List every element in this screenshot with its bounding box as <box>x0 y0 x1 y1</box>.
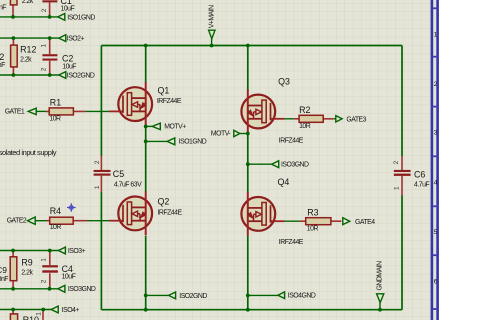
terminal MOTV+ <box>152 123 160 129</box>
resistor R10 (cut at bottom) <box>12 310 14 314</box>
resistor R2 leads <box>294 118 334 120</box>
wire ISO3GND rail <box>0 288 58 290</box>
label R2 <box>299 105 311 130</box>
label Q2 <box>158 197 183 217</box>
junction ISO3+ rail R9 <box>11 249 15 253</box>
wire R4 to Q2 gate <box>87 220 110 222</box>
svg-text:MOTV-: MOTV- <box>211 130 231 137</box>
svg-text:GATE2: GATE2 <box>7 217 27 224</box>
resistor R4 leads <box>47 220 88 222</box>
capacitor C5 leads <box>100 156 102 193</box>
label C2 <box>62 54 76 71</box>
svg-text:1: 1 <box>94 185 101 189</box>
wire Q3 source to Q4 drain <box>247 134 249 193</box>
svg-text:3: 3 <box>434 130 438 137</box>
svg-text:MOTV+: MOTV+ <box>164 123 186 130</box>
wire ISO4+ rail <box>0 309 51 311</box>
svg-text:ISO3GND: ISO3GND <box>68 286 96 293</box>
resistor above ISO1GND (cut at top) <box>12 5 14 17</box>
transistor Q4 <box>241 192 284 236</box>
svg-text:R1: R1 <box>50 97 61 107</box>
svg-text:IRFZ44E: IRFZ44E <box>279 138 304 145</box>
wire Q3 gate to R2 <box>284 118 294 120</box>
terminal ISO1GND left rail <box>58 14 65 21</box>
terminal ISO2GND left rail <box>59 72 66 79</box>
label C4 <box>62 264 76 281</box>
wire Q4 gate to R3 <box>284 220 300 222</box>
resistor R3 <box>306 218 331 225</box>
wire V+MAIN top bus <box>101 45 402 47</box>
sheet outer white margin <box>439 0 477 320</box>
svg-text:6: 6 <box>434 278 438 285</box>
junction ISO3GND rail R9 <box>11 287 15 291</box>
wire ISO2GND stub <box>146 294 169 296</box>
svg-text:2.2k: 2.2k <box>22 0 34 5</box>
svg-text:2.2k: 2.2k <box>21 269 33 276</box>
terminal ISO3GND mid <box>272 161 279 168</box>
svg-text:10R: 10R <box>299 123 311 130</box>
label R12 <box>20 45 36 64</box>
capacitor C6 leads <box>401 156 403 196</box>
svg-text:R12: R12 <box>20 45 36 55</box>
junction ISO2GND rail C2 <box>48 73 52 77</box>
wire Q1 source to Q2 drain <box>145 126 147 192</box>
junction top bus V+MAIN <box>210 44 214 48</box>
svg-text:nF: nF <box>0 62 5 69</box>
svg-text:ISO2GND: ISO2GND <box>179 293 207 300</box>
svg-text:1: 1 <box>41 44 48 48</box>
wire C5 column lower <box>100 192 102 310</box>
label Q1 <box>157 85 182 105</box>
wire GATE2 to R4 <box>35 220 46 222</box>
junction ISO3+ rail C4 <box>48 249 52 253</box>
terminal ISO1GND mid <box>167 138 175 145</box>
svg-text:ISO2GND: ISO2GND <box>67 72 95 79</box>
svg-text:10uF: 10uF <box>62 274 76 281</box>
svg-text:1: 1 <box>35 312 42 316</box>
capacitor C4 plates <box>42 265 58 272</box>
wire R2 to GATE3 <box>333 118 336 120</box>
svg-text:2.2k: 2.2k <box>20 57 32 64</box>
wire Q1 drain from bus <box>145 46 147 84</box>
terminal ISO3+ <box>58 247 65 254</box>
resistor R12 leads <box>12 38 14 75</box>
label R3 <box>307 208 319 233</box>
svg-text:2: 2 <box>94 160 101 164</box>
capacitor C1 bottom plate <box>42 0 57 2</box>
capacitor C4 leads <box>49 251 51 289</box>
wire ISO3+ rail <box>0 250 58 252</box>
capacitor C5 plates <box>94 170 111 176</box>
junction top bus Q1 drain <box>144 44 148 48</box>
svg-text:1: 1 <box>394 186 401 190</box>
svg-text:C9: C9 <box>0 265 7 275</box>
transistor Q1 <box>109 82 152 126</box>
svg-text:IRFZ44E: IRFZ44E <box>157 98 182 105</box>
junction ISO4GND node <box>246 294 250 298</box>
svg-text:Q3: Q3 <box>278 76 290 86</box>
border outer line <box>436 0 439 320</box>
label C6 <box>414 169 429 188</box>
wire MOTV+ stub <box>146 125 153 127</box>
origin marker blue <box>67 203 76 212</box>
terminal GATE2 <box>28 217 36 224</box>
svg-text:ISO2+: ISO2+ <box>67 36 85 43</box>
junction ISO2+ rail R12 <box>12 36 16 40</box>
svg-text:4.7uF 63V: 4.7uF 63V <box>114 182 142 189</box>
junction MOTV+ node <box>144 125 148 129</box>
resistor R1 <box>49 108 73 115</box>
junction bottom bus Q4 source <box>246 308 250 312</box>
svg-text:ISO1GND: ISO1GND <box>67 14 95 21</box>
svg-text:4: 4 <box>434 179 438 186</box>
terminal V+MAIN <box>209 30 215 39</box>
label C1 cut <box>61 0 75 12</box>
wire ISO1GND rail <box>0 16 58 18</box>
svg-text:4.7uF: 4.7uF <box>414 181 429 188</box>
wire R1 to Q1 gate <box>85 110 109 112</box>
svg-text:ISO3+: ISO3+ <box>68 248 86 255</box>
svg-text:GATE3: GATE3 <box>346 116 366 123</box>
terminal GATE1 <box>28 108 36 114</box>
wire ISO2+ rail <box>0 37 59 39</box>
resistor R1 leads <box>46 110 85 112</box>
wire Q3 drain from bus <box>247 46 249 91</box>
svg-text:ISO1GND: ISO1GND <box>179 139 207 146</box>
svg-text:ISO3GND: ISO3GND <box>281 161 309 168</box>
border inner line <box>431 0 434 320</box>
resistor R3 leads <box>300 220 342 222</box>
svg-text:1: 1 <box>40 258 47 262</box>
svg-text:R9: R9 <box>21 258 32 268</box>
svg-text:Q1: Q1 <box>158 85 170 95</box>
svg-text:C5: C5 <box>113 169 124 179</box>
resistor R4 <box>50 217 73 224</box>
svg-text:C6: C6 <box>414 169 425 179</box>
svg-text:2: 2 <box>0 52 4 62</box>
svg-text:IRFZ44E: IRFZ44E <box>279 239 304 246</box>
transistor Q3 <box>241 90 284 134</box>
svg-text:1: 1 <box>434 31 438 38</box>
svg-text:10uF: 10uF <box>61 5 75 12</box>
svg-text:Q2: Q2 <box>158 197 170 207</box>
svg-text:R4: R4 <box>50 206 61 216</box>
svg-text:isolated input supply: isolated input supply <box>0 148 57 157</box>
junction ISO2+ rail C2 <box>48 36 52 40</box>
junction bottom bus Q2 source <box>144 308 148 312</box>
junction ISO1GND rail R11 <box>11 15 15 19</box>
label C5 <box>113 169 142 188</box>
svg-text:00nF: 00nF <box>0 276 8 283</box>
junction ISO3GND rail C4 <box>48 287 52 291</box>
terminal ISO3GND left rail <box>58 285 65 292</box>
svg-text:ISO4+: ISO4+ <box>62 307 80 314</box>
capacitor C6 plates <box>394 170 411 176</box>
capacitor C1 lead (cut at top) <box>49 2 51 17</box>
label Q3 <box>278 76 304 144</box>
svg-text:2: 2 <box>434 81 438 88</box>
label R9 <box>21 258 33 277</box>
svg-text:GATE1: GATE1 <box>5 109 25 116</box>
svg-text:IRFZ44E: IRFZ44E <box>158 209 183 216</box>
wire C6 column upper <box>401 46 403 157</box>
terminal GATE4 <box>343 218 350 225</box>
svg-text:10R: 10R <box>50 224 62 231</box>
label R1 <box>49 97 61 122</box>
wire GNDMAIN terminal stub <box>379 303 381 310</box>
resistor R9 leads <box>12 251 14 289</box>
svg-text:ISO4GND: ISO4GND <box>288 293 316 300</box>
junction MOTV- node <box>246 132 250 136</box>
wire MOTV- stub <box>240 133 248 135</box>
resistor R2 <box>299 115 323 122</box>
capacitor C2 leads <box>49 38 51 75</box>
label R10 cut <box>23 315 39 320</box>
wire C5 column upper <box>100 46 102 157</box>
svg-text:2: 2 <box>393 160 400 164</box>
capacitor C10 lead (cut at bottom) <box>42 311 44 320</box>
wire ISO4GND stub <box>248 294 279 296</box>
svg-text:2: 2 <box>41 8 48 12</box>
junction ISO1GND rail C1 <box>48 15 52 19</box>
junction ISO3GND node <box>246 162 250 166</box>
terminal MOTV- <box>234 130 240 136</box>
wire V+MAIN terminal stub <box>211 39 213 46</box>
wire ISO2GND rail <box>0 74 59 76</box>
resistor R12 <box>11 45 18 67</box>
wire GATE1 to R1 <box>34 110 46 112</box>
svg-text:C4: C4 <box>62 264 73 274</box>
junction ISO4+ rail R10 <box>11 308 15 312</box>
junction ISO2GND rail R12 <box>12 73 16 77</box>
junction ISO4+ rail C10 <box>41 308 45 312</box>
terminal ISO2+ <box>59 35 66 42</box>
terminal GATE3 <box>336 116 342 122</box>
wire GNDMAIN bottom bus <box>101 309 402 311</box>
svg-text:GNDMAIN: GNDMAIN <box>376 261 383 291</box>
terminal GNDMAIN <box>377 294 384 303</box>
svg-text:2: 2 <box>40 279 47 283</box>
wire C6 column lower <box>401 196 403 310</box>
svg-text:C2: C2 <box>62 54 73 64</box>
junction top bus Q3 drain <box>246 44 250 48</box>
svg-text:10uF: 10uF <box>62 64 76 71</box>
svg-text:V+MAIN: V+MAIN <box>209 5 216 28</box>
border zone numbers <box>434 31 438 285</box>
transistor Q2 <box>109 191 152 235</box>
wire ISO1GND stub <box>146 140 167 142</box>
wire Q2 source to bottom bus <box>145 236 147 310</box>
terminal ISO2GND mid <box>169 292 176 299</box>
resistor R9 <box>10 257 17 281</box>
svg-text:Q4: Q4 <box>278 177 290 187</box>
svg-text:10R: 10R <box>49 116 61 123</box>
svg-text:nF: nF <box>0 5 6 12</box>
junction ISO1GND node <box>144 140 148 144</box>
terminal ISO4+ <box>51 306 58 313</box>
svg-text:5: 5 <box>434 229 438 236</box>
svg-text:R2: R2 <box>299 105 310 115</box>
terminal ISO4GND <box>278 292 285 299</box>
label R4 <box>50 206 62 231</box>
svg-text:GATE4: GATE4 <box>355 219 375 226</box>
junction bottom bus GNDMAIN <box>378 308 382 312</box>
svg-text:2: 2 <box>41 67 48 71</box>
svg-text:R3: R3 <box>307 208 318 218</box>
wire Q4 source to bottom bus <box>247 236 249 310</box>
svg-text:10R: 10R <box>307 226 319 233</box>
label Q4 <box>278 177 304 246</box>
capacitor C2 plates <box>42 54 57 60</box>
junction ISO2GND node <box>144 294 148 298</box>
wire ISO3GND stub <box>248 163 272 165</box>
border ticks <box>433 7 436 310</box>
